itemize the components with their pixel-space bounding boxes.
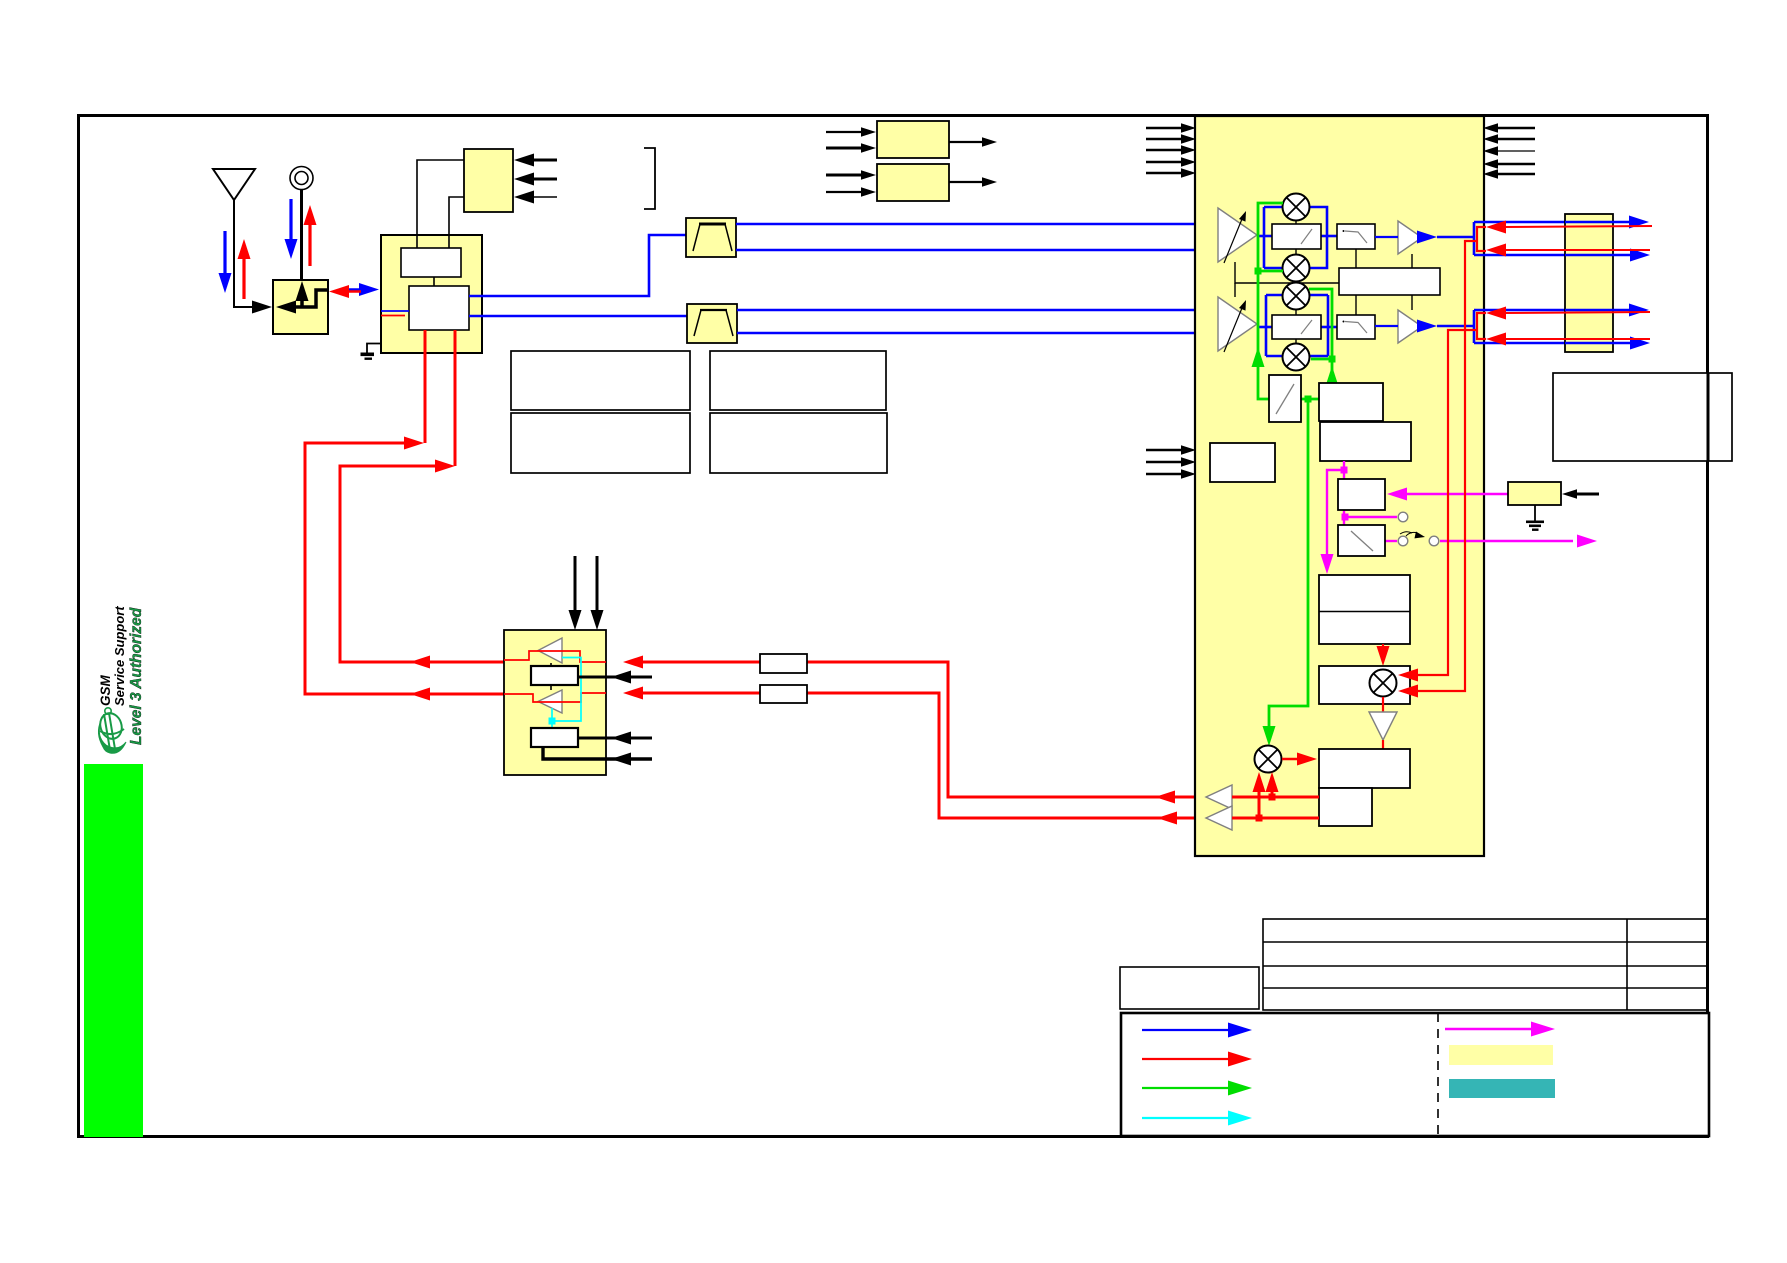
- svg-text:GSM: GSM: [98, 674, 113, 706]
- buzzer driver box: [877, 164, 949, 201]
- legend: RX arrow: [1142, 1029, 1230, 1031]
- note box 4: [710, 413, 887, 473]
- sidetone wire (cyan): [552, 658, 581, 729]
- IF filter pair1: [1337, 224, 1375, 249]
- legend: audio arrow: [1142, 1117, 1230, 1119]
- note box 3: [710, 351, 886, 410]
- note box on border: [1553, 373, 1732, 461]
- legend box: [1121, 1013, 1709, 1136]
- GSM Service Support logo: [97, 606, 145, 754]
- legend: TX arrow: [1142, 1058, 1230, 1060]
- mixer M4: [1283, 344, 1310, 371]
- series resistor 1: [760, 654, 807, 673]
- RX LNA 1 (variable gain amp): [1218, 208, 1257, 262]
- mic amp: [538, 690, 562, 713]
- battery power wires to PA: [305, 330, 504, 694]
- black wire LNA1 to logic: [1235, 262, 1339, 283]
- audio block: [504, 630, 606, 775]
- logic box: [1339, 268, 1440, 295]
- control bus arrows right: [1498, 127, 1535, 129]
- audio power wire jogs (red): [504, 651, 606, 702]
- VCO box: [1319, 383, 1383, 421]
- IF amp pair1: [1398, 221, 1422, 254]
- PA ground: [367, 344, 381, 354]
- legend: PLL arrow: [1445, 1028, 1532, 1031]
- RF transceiver IC: [1195, 116, 1484, 856]
- red supply wires with series resistors: [641, 662, 1195, 818]
- note box 1: [511, 351, 690, 410]
- mixer M1: [1283, 194, 1310, 221]
- VCO tank box: [1320, 422, 1411, 461]
- mixer M3: [1283, 283, 1310, 310]
- wire PA to TX filter 2 (blue): [469, 315, 687, 318]
- TX bandpass filter 1: [686, 218, 736, 257]
- antenna switch block: [273, 280, 328, 334]
- phase shifter pair1: [1272, 224, 1321, 249]
- PA / front-end block: [381, 235, 482, 353]
- note box 2: [511, 413, 690, 473]
- phase detector box: [1338, 525, 1385, 556]
- switch internal routing: [293, 290, 328, 308]
- bracket symbol: [644, 148, 655, 209]
- wires PA to battery box: [417, 160, 464, 248]
- phase shifter pair2: [1272, 315, 1321, 339]
- ground: [1534, 505, 1536, 521]
- antenna: [213, 169, 255, 307]
- quadrature demod wiring pair1 (blue): [1257, 207, 1337, 268]
- IF amp pair2: [1398, 310, 1422, 343]
- RX out pair1 blue split: [1437, 222, 1565, 255]
- quadrature demod wiring pair2 (blue): [1257, 295, 1337, 356]
- sleep clock box: [1210, 443, 1275, 482]
- PA feedback stubs: [381, 310, 409, 312]
- antenna RX/TX direction arrows: [223, 231, 226, 281]
- legend: LO arrow: [1142, 1087, 1230, 1089]
- TX output amps: [1206, 785, 1232, 809]
- control bus arrows left: [1146, 127, 1181, 129]
- prescaler divider box: [1269, 375, 1301, 422]
- TX modulator box: [1319, 666, 1410, 704]
- IF filter pair2: [1337, 315, 1375, 339]
- audio block top inputs: [574, 556, 577, 612]
- mic interface box: [531, 728, 578, 747]
- PLL wiring (magenta): [1327, 461, 1573, 560]
- TX I/Q lines inside: [1232, 784, 1319, 818]
- red wire to TX mixer box: [1382, 644, 1384, 652]
- earpiece amp: [538, 638, 562, 663]
- wire PA to TX filter 1 (blue): [469, 235, 686, 296]
- test point 1: [1398, 512, 1408, 522]
- legend: yellow swatch: [1449, 1045, 1553, 1065]
- I/Q pair wires right: [1565, 222, 1635, 343]
- TX VCO box (L shape): [1319, 749, 1410, 788]
- headset connector: [290, 167, 313, 190]
- PA control box: [401, 248, 461, 277]
- PA amplifier box: [409, 286, 469, 330]
- svg-text:Level 3 Authorized: Level 3 Authorized: [128, 607, 145, 745]
- RX out pair2 blue split: [1437, 310, 1565, 343]
- RX/TX blue lines to RF IC: [736, 224, 1197, 333]
- audio interface box: [531, 666, 578, 685]
- feedback wires (red) from RX outputs: [1412, 227, 1486, 691]
- headset direction arrows: [289, 199, 292, 247]
- charge pump box: [1338, 479, 1385, 510]
- svg-text:Service Support: Service Support: [112, 606, 127, 706]
- sleep clock arrows: [1146, 449, 1181, 451]
- RX LNA 2 (variable gain amp): [1218, 297, 1257, 351]
- TX bandpass filter 2: [687, 304, 737, 343]
- border frame: [79, 116, 1708, 1137]
- vibra driver box: [877, 121, 949, 158]
- AFC DAC box: [1508, 482, 1561, 505]
- IF counter box (2 rows): [1319, 575, 1410, 644]
- down amplifier: [1382, 697, 1384, 712]
- legend: teal swatch: [1449, 1079, 1555, 1098]
- switch to PA bidirectional arrows: [340, 288, 366, 291]
- LO distribution (green): [1258, 203, 1332, 733]
- green certification bar: [84, 764, 143, 1137]
- baseband filter box: [1565, 214, 1613, 352]
- test point 2 + switch: [1398, 536, 1408, 546]
- audio block right-side black arrows: [578, 676, 652, 679]
- TX mixer: [1255, 746, 1282, 773]
- mixer M2: [1283, 255, 1310, 282]
- offset mixer: [1370, 670, 1397, 697]
- battery connector box: [464, 149, 513, 212]
- series resistor 2: [760, 685, 807, 703]
- title block table: [1120, 919, 1707, 1010]
